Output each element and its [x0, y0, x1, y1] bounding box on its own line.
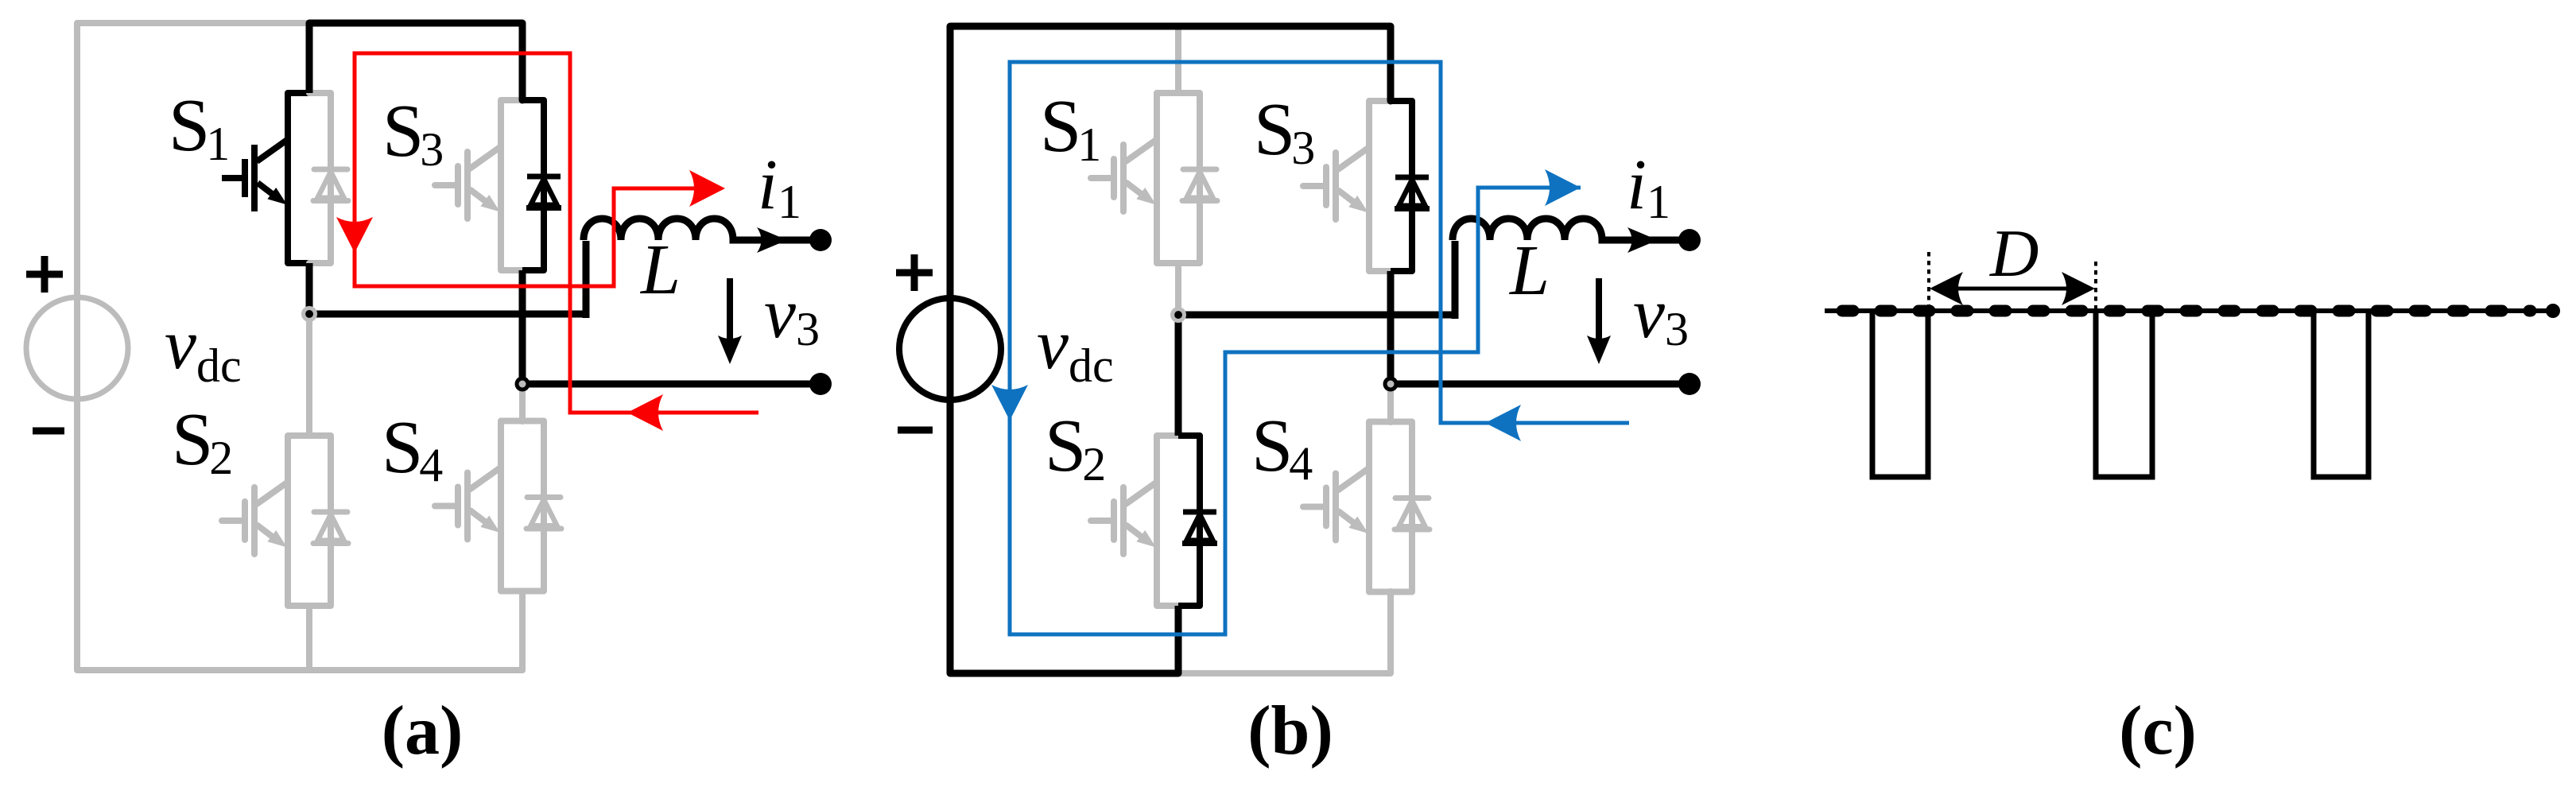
- blue current path loop (b): [1010, 62, 1629, 634]
- plus sign (b): [896, 254, 933, 291]
- inductor L (a): [584, 219, 821, 318]
- blue arrow down along source (b): [991, 385, 1028, 421]
- node B gray cap (a): [519, 381, 526, 388]
- terminal dot: i1 output (b): [1678, 229, 1701, 251]
- svg-text:v3: v3: [1633, 274, 1689, 355]
- wire: bottom rail gray segment (b): [1178, 670, 1391, 677]
- pulse 2 (c): [2096, 311, 2152, 477]
- blue arrow right to i1 (b): [1545, 169, 1581, 206]
- voltage source vdc (a): [26, 297, 128, 399]
- switch S3 (b): IGBT half: [1303, 101, 1391, 271]
- switch S4 (b): diode half: [1391, 422, 1430, 592]
- wire: dc source outer loop (a): [77, 23, 522, 670]
- wire: S3 bottom lead to node B (b): [1387, 271, 1395, 384]
- node B dot (a): [515, 377, 530, 392]
- arrow: v3 polarity (a): [727, 278, 733, 339]
- wire: S2 bottom to bottom rail (b): [1175, 606, 1182, 673]
- svg-text:L: L: [1508, 231, 1550, 310]
- wire: node B to S4 top (b): [1387, 384, 1394, 422]
- svg-text:S2: S2: [172, 398, 233, 484]
- wire: S4 bottom to bottom rail (b): [1387, 591, 1394, 673]
- node B dot (b): [1383, 377, 1399, 392]
- svg-text:S3: S3: [1254, 88, 1315, 174]
- minus sign (a): [33, 428, 64, 435]
- switch S4 (b): IGBT half: [1303, 422, 1391, 592]
- svg-text:(c): (c): [2119, 692, 2197, 770]
- wire: node A to S2 top (a): [306, 314, 312, 436]
- terminal dot: v3 return (a): [809, 373, 832, 395]
- wire: S1 bottom lead to node A (a): [306, 263, 313, 314]
- wire: node B to S4 top (a): [519, 384, 526, 421]
- waveform zero axis thick dashes (c): [1842, 305, 2531, 317]
- wire: S1 top lead gray (b): [1175, 26, 1181, 93]
- svg-text:S3: S3: [382, 90, 444, 176]
- D duration arrow (c): [1952, 287, 2073, 291]
- svg-text:v3: v3: [764, 274, 820, 355]
- switch S2 (b): IGBT half: [1091, 436, 1178, 606]
- inductor L (b): [1453, 219, 1690, 319]
- wire: node A to S2 top (b): [1175, 315, 1182, 436]
- switch S3 (a): diode half: [522, 100, 561, 270]
- switch S1 (a): diode half: [309, 93, 348, 263]
- pulse 3 (c): [2314, 311, 2368, 477]
- switch S1 (b): diode half: [1178, 93, 1217, 263]
- dotted guide right (c): [2094, 262, 2097, 326]
- switch S2 (a): IGBT half: [222, 436, 309, 606]
- svg-text:i1: i1: [1627, 145, 1670, 228]
- terminal dot: v3 return (b): [1678, 373, 1701, 395]
- svg-text:L: L: [639, 231, 681, 309]
- switch S3 (a): IGBT half: [435, 100, 522, 270]
- wire: S3 bottom lead to node B (a): [519, 270, 526, 384]
- svg-text:S1: S1: [169, 84, 230, 170]
- wire: dc source loop + top rail + S3 top lead (b): [950, 26, 1391, 673]
- wire: S2 bottom to bottom rail (a): [306, 606, 312, 670]
- minus sign (b): [898, 427, 933, 434]
- terminal dot: i1 output (a): [809, 229, 832, 251]
- wire: top rail black + S3 top lead (a): [309, 23, 522, 100]
- plus sign (a): [26, 256, 63, 293]
- dotted guide left (c): [1927, 252, 1930, 320]
- svg-text:S2: S2: [1045, 405, 1106, 490]
- svg-text:(a): (a): [382, 692, 464, 770]
- switch S2 (a): diode half: [309, 436, 348, 606]
- blue arrow left return (b): [1485, 405, 1521, 441]
- axis end dot (c): [2546, 304, 2560, 318]
- red current path loop (a): [355, 53, 758, 413]
- svg-text:S4: S4: [382, 406, 443, 491]
- wire: v3 output lower wire (a): [522, 381, 821, 388]
- svg-text:vdc: vdc: [165, 305, 242, 392]
- waveform zero axis thin line (c): [1825, 308, 2548, 313]
- switch S4 (a): IGBT half: [435, 421, 522, 591]
- svg-text:S4: S4: [1251, 405, 1313, 490]
- node A ring (a): [304, 308, 316, 320]
- wire: mid rail node A to inductor (b): [1178, 312, 1455, 319]
- svg-text:i1: i1: [758, 145, 801, 228]
- red arrow left return (a): [627, 394, 663, 431]
- switch S1 (a): IGBT half: [222, 93, 309, 263]
- switch S4 (a): diode half: [522, 421, 561, 591]
- wire: S1 bottom lead to node A (b): [1175, 263, 1181, 315]
- voltage source vdc (b): [899, 298, 1001, 400]
- arrow: i1 direction on wire (a): [757, 227, 787, 253]
- arrow: i1 direction on wire (b): [1627, 227, 1658, 253]
- node A ring (b): [1173, 309, 1185, 321]
- wire: v3 output lower wire (b): [1391, 381, 1690, 388]
- switch S1 (b): IGBT half: [1091, 93, 1178, 263]
- switch S3 (b): diode half: [1391, 101, 1430, 271]
- svg-text:S1: S1: [1040, 85, 1101, 171]
- wire: S4 bottom to bottom rail (a): [519, 591, 526, 671]
- arrow: v3 polarity (b): [1596, 278, 1602, 339]
- node A dot (b): [1174, 311, 1182, 319]
- node A dot (a): [305, 310, 313, 318]
- red arrow down through S1 (a): [336, 217, 373, 253]
- switch S2 (b): diode half: [1178, 436, 1217, 606]
- red arrow right to i1 (a): [689, 170, 725, 207]
- node B gray cap (b): [1387, 381, 1395, 388]
- svg-text:(b): (b): [1247, 692, 1333, 770]
- svg-text:vdc: vdc: [1037, 305, 1114, 392]
- svg-text:D: D: [1989, 216, 2039, 291]
- pulse 1 (c): [1872, 311, 1928, 477]
- wire: mid rail node A to inductor (a): [309, 311, 586, 318]
- wire: S1 top lead (a): [306, 23, 313, 93]
